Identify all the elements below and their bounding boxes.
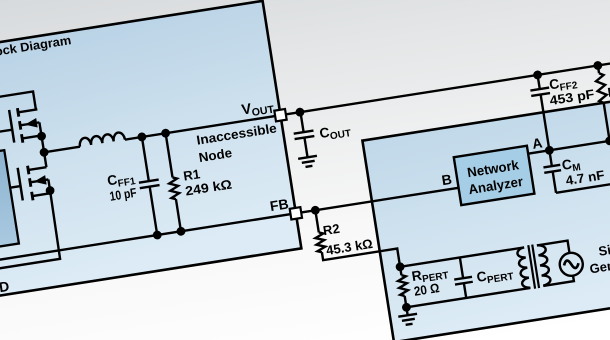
box network analyzer [454, 146, 535, 205]
node switch junction 1 [37, 131, 47, 141]
resistor R2 [315, 210, 318, 232]
capacitor CM [549, 150, 551, 166]
node R3 bottom junction [605, 136, 610, 146]
capacitor CFF1 [142, 137, 149, 181]
wire injection top rail [400, 247, 524, 266]
node CFF1 top junction [137, 132, 147, 142]
wire FB to B input [296, 188, 459, 213]
wire secondary bottom to generator [542, 275, 574, 286]
capacitor COUT [300, 112, 303, 132]
right panel (measurement setup) [362, 91, 610, 340]
wire Q2 source to ground rail [0, 191, 61, 269]
node R1 bottom junction [176, 226, 186, 236]
resistor R3 (cropped) [598, 65, 599, 73]
ground RPERT [406, 307, 407, 315]
transistor Q1 (high-side MOSFET) [17, 108, 18, 116]
node RPERT bottom junction [401, 302, 411, 312]
inductor L1 [79, 132, 125, 147]
terminal pin VOUT [274, 109, 286, 121]
wire Vout (inductor to VOUT pin) [125, 115, 281, 139]
wire switch node [42, 136, 47, 167]
node switch junction 2 (inductor tap) [39, 147, 49, 157]
wire VOUT to COUT node [280, 112, 299, 115]
signal generator source [558, 251, 584, 277]
capacitor CFF2 [538, 75, 540, 89]
svg-text:FB: FB [269, 195, 290, 214]
node R1 top junction [161, 128, 171, 138]
ground COUT [298, 156, 317, 159]
node R2 top junction [310, 205, 320, 215]
wire A stub [528, 150, 549, 153]
node RPERT top junction [395, 262, 405, 272]
wire R1 top lead [166, 133, 173, 177]
wire drain rail [0, 91, 36, 118]
wire switch to inductor [44, 147, 80, 153]
node CFF2 top junction [533, 70, 543, 80]
node CFF1 bottom junction [152, 230, 162, 240]
left panel (block diagram) [0, 1, 301, 300]
transistor Q2 (low-side MOSFET) [28, 166, 29, 174]
resistor R1 [168, 177, 180, 200]
node COUT junction [295, 107, 305, 117]
terminal pin FB [290, 207, 302, 219]
capacitor CPERT [460, 257, 463, 278]
label node A wire right [549, 138, 610, 150]
wire FB (feedback trace) [0, 213, 296, 260]
wire secondary top to generator [537, 241, 570, 259]
node A junction [544, 145, 554, 155]
wire injection bottom rail [406, 288, 530, 307]
IC inner block [0, 150, 19, 252]
node Q2 source junction [45, 186, 55, 196]
transformer T1 [517, 247, 531, 288]
resistor RPERT [400, 267, 401, 275]
wire R1 bottom lead [176, 199, 181, 231]
svg-text:R2: R2 [322, 221, 341, 238]
wire VOUT long (to CFF2/R) [300, 62, 610, 112]
node R3 top junction [593, 60, 603, 70]
